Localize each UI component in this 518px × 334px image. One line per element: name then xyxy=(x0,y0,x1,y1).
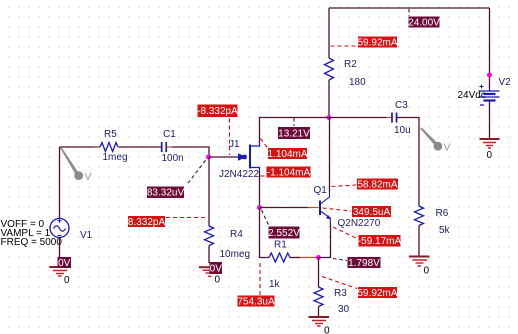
wire: collector node left to J1 drain xyxy=(260,118,330,141)
current label 58.82mA (Q1 collector) xyxy=(332,179,399,191)
wire: V1 to ground xyxy=(59,238,61,268)
svg-text:754.3uA: 754.3uA xyxy=(237,297,275,308)
svg-text:0: 0 xyxy=(64,275,70,286)
svg-text:0V: 0V xyxy=(210,264,223,275)
current label -8.332pA (J1 gate) xyxy=(197,105,238,156)
svg-text:100n: 100n xyxy=(162,153,184,164)
bias label 83.32uV xyxy=(147,161,206,199)
svg-text:V: V xyxy=(444,142,451,154)
wire: R2 to collector node xyxy=(328,80,330,118)
current label 8.332pA (R4) xyxy=(128,216,208,228)
svg-text:R2: R2 xyxy=(344,59,357,70)
svg-text:10meg: 10meg xyxy=(220,249,251,260)
svg-text:1.798V: 1.798V xyxy=(348,258,380,269)
svg-text:C1: C1 xyxy=(163,129,176,140)
voltage probe marker at output xyxy=(420,127,450,153)
svg-text:180: 180 xyxy=(349,77,366,88)
capacitor C3 xyxy=(392,100,411,136)
resistor R2 xyxy=(325,58,367,88)
svg-text:59.92mA: 59.92mA xyxy=(357,38,397,49)
ground 0 under V1 xyxy=(50,267,71,286)
node: collector net junction xyxy=(327,115,332,120)
svg-text:C3: C3 xyxy=(395,100,408,111)
current label -59.17mA (Q1 emitter) xyxy=(333,227,402,247)
svg-text:-1.104mA: -1.104mA xyxy=(267,168,311,179)
wire: emitter node down to R3 xyxy=(318,258,320,288)
svg-text:1.104mA: 1.104mA xyxy=(267,149,307,160)
wire: R5 to C1 xyxy=(119,146,162,148)
wire: C1 to gate node with jog xyxy=(166,147,209,157)
wire: input corner at source xyxy=(60,146,101,148)
svg-text:0: 0 xyxy=(487,150,493,161)
ground 0 under V2 xyxy=(480,139,500,161)
wire: rail down to R2 xyxy=(328,8,330,58)
current label 349.5uA (Q1 base) xyxy=(323,206,392,218)
wire: J1 source down to source node xyxy=(259,173,261,208)
wire: top supply rail xyxy=(329,7,490,9)
bias label 0V at R4 ground xyxy=(210,262,223,275)
wire: gate node down to R4 xyxy=(208,157,210,226)
svg-text:10u: 10u xyxy=(394,125,411,136)
resistor R3 xyxy=(314,287,350,315)
svg-text:1meg: 1meg xyxy=(103,152,128,163)
node: source net junction xyxy=(257,205,262,210)
svg-text:V1: V1 xyxy=(80,230,93,241)
svg-text:8.332pA: 8.332pA xyxy=(128,217,166,228)
svg-text:58.82mA: 58.82mA xyxy=(357,180,397,191)
svg-text:13.21V: 13.21V xyxy=(278,129,310,140)
resistor R1 xyxy=(269,240,290,291)
JFET J1 J2N4222 xyxy=(219,139,260,180)
svg-text:0: 0 xyxy=(215,275,221,286)
wire: collector node right to C3 xyxy=(329,117,392,119)
wire: Q1 collector up to collector node xyxy=(329,118,331,193)
BJT Q1 Q2N2270 xyxy=(314,185,381,229)
node: gate net junction xyxy=(206,155,211,160)
voltage probe marker at input xyxy=(60,147,92,183)
wire: R6 to ground xyxy=(418,226,420,257)
svg-text:349.5uA: 349.5uA xyxy=(353,207,391,218)
svg-text:V2: V2 xyxy=(499,77,512,88)
svg-text:R5: R5 xyxy=(104,129,117,140)
svg-text:0: 0 xyxy=(324,326,330,334)
bias label 1.798V xyxy=(333,257,381,269)
svg-text:24.00V: 24.00V xyxy=(408,18,440,29)
wire: R3 to ground xyxy=(318,307,320,318)
svg-text:0V: 0V xyxy=(58,258,71,269)
wire: V2 to ground xyxy=(489,101,491,140)
V1 parameter text xyxy=(1,219,63,248)
bias label 0V at V1 ground xyxy=(58,257,72,269)
svg-text:-59.17mA: -59.17mA xyxy=(358,236,402,247)
svg-text:Q1: Q1 xyxy=(314,185,328,196)
battery V2 xyxy=(458,77,512,105)
current label 754.3uA (R1) xyxy=(237,263,275,308)
wire: source node to Q1 base xyxy=(260,207,319,209)
wire: gate node to J1 gate xyxy=(209,156,236,158)
svg-text:FREQ = 5000: FREQ = 5000 xyxy=(1,237,63,248)
svg-text:R1: R1 xyxy=(274,240,287,251)
svg-text:30: 30 xyxy=(338,304,350,315)
svg-text:59.92mA: 59.92mA xyxy=(357,288,397,299)
svg-text:R6: R6 xyxy=(436,208,449,219)
resistor R6 xyxy=(415,206,451,236)
wire: C3 right to corner down to R6 xyxy=(397,118,420,207)
ground 0 under R3 xyxy=(309,317,331,334)
resistor R5 xyxy=(95,129,128,163)
ground 0 under R6 xyxy=(409,257,430,277)
svg-text:2.552V: 2.552V xyxy=(268,228,300,239)
svg-text:Q2N2270: Q2N2270 xyxy=(338,218,381,229)
svg-text:R4: R4 xyxy=(230,229,243,240)
node: V2 plus junction dot xyxy=(487,73,492,78)
svg-text:5k: 5k xyxy=(439,225,451,236)
current label 59.92mA (R2) xyxy=(331,37,398,49)
wire: R4 to ground xyxy=(208,246,210,264)
bias label 2.552V xyxy=(262,210,301,239)
svg-text:J1: J1 xyxy=(229,139,240,150)
wire: rail down to V2 plus terminal xyxy=(489,8,491,91)
capacitor C1 xyxy=(162,129,184,164)
ground 0 under R4 xyxy=(199,267,221,285)
svg-text:83.32uV: 83.32uV xyxy=(147,188,185,199)
wire: R1 to emitter node xyxy=(290,257,319,259)
node: emitter net junction xyxy=(316,255,321,260)
svg-text:V: V xyxy=(85,171,92,183)
current label 59.92mA (R3) xyxy=(322,277,398,300)
svg-text:1k: 1k xyxy=(269,279,281,290)
svg-text:0: 0 xyxy=(424,266,430,277)
wire: input corner down to V1 xyxy=(59,147,61,219)
resistor R4 xyxy=(205,226,251,260)
svg-text:-8.332pA: -8.332pA xyxy=(197,106,238,117)
wire: source node down to R1 xyxy=(260,208,270,258)
current label -1.104mA (J1 source) xyxy=(261,167,311,179)
current label 1.104mA (J1 drain) xyxy=(261,139,308,161)
svg-text:R3: R3 xyxy=(334,288,347,299)
wire: emitter node up to Q1 emitter xyxy=(319,223,331,258)
bias label 13.21V xyxy=(278,118,310,140)
svg-text:24Vdc: 24Vdc xyxy=(458,90,486,101)
svg-text:J2N4222: J2N4222 xyxy=(219,169,259,180)
bias label 24.00V xyxy=(408,9,440,29)
source V1 VSIN xyxy=(50,219,93,242)
